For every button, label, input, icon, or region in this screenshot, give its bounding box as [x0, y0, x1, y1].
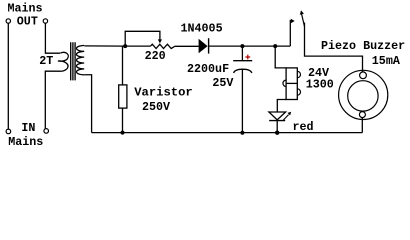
wire secondary bottom to rail: [84, 75, 91, 133]
wire LED to bottom rail: [276, 121, 278, 133]
svg-text:OUT: OUT: [17, 14, 38, 28]
piezo buzzer outer circle: [339, 70, 388, 119]
buzzer terminal bottom: [359, 112, 365, 118]
transformer core: [71, 42, 75, 80]
wire diode to switch riser: [209, 45, 291, 47]
resistor R 220: [150, 44, 174, 48]
svg-text:Mains: Mains: [8, 135, 43, 149]
switch left post arrowhead: [291, 19, 295, 24]
node junction relay branch: [273, 44, 277, 48]
relay coil K1 box: [286, 68, 297, 100]
diode D1 1N4005: [199, 39, 208, 54]
svg-text:IN: IN: [21, 121, 35, 135]
capacitor top plate: [233, 60, 252, 62]
relay coil bumps: [283, 71, 301, 95]
terminal OUT left: [6, 19, 10, 23]
piezo buzzer inner circle: [348, 81, 378, 111]
svg-text:220: 220: [145, 49, 166, 63]
wire coil to LED: [277, 100, 286, 113]
wire mains left vertical: [7, 23, 9, 128]
wire buzzer bottom to rail: [361, 118, 363, 133]
svg-text:1N4005: 1N4005: [181, 21, 223, 35]
svg-text:15mA: 15mA: [372, 54, 401, 68]
node junction top-left: [123, 44, 127, 48]
wire resistor to diode: [175, 45, 199, 47]
varistor RV1 wire top: [122, 46, 124, 85]
wire capacitor bottom: [241, 70, 243, 133]
node varistor bottom: [121, 131, 125, 135]
svg-text:25V: 25V: [212, 76, 233, 90]
capacitor bottom plate (curved): [234, 69, 252, 73]
buzzer terminal top: [360, 72, 367, 79]
svg-text:2T: 2T: [39, 54, 53, 68]
wire primary bottom return: [45, 71, 60, 128]
wire branch down to relay coil: [275, 46, 286, 68]
varistor box: [119, 85, 127, 108]
arrowhead onto resistor: [158, 39, 162, 43]
switch right post: [305, 23, 363, 73]
svg-text:1300: 1300: [306, 77, 334, 91]
switch blade: [301, 12, 305, 27]
LED D2 red: [269, 112, 286, 120]
wire bottom rail: [92, 132, 363, 134]
wire mains right vertical to transformer primary: [45, 23, 60, 53]
transformer secondary winding: [77, 45, 85, 74]
terminal OUT right: [43, 19, 47, 23]
wire bypass loop over resistor: [125, 31, 160, 46]
terminal IN right: [44, 129, 49, 134]
LED arrow: [283, 115, 288, 121]
svg-text:Piezo Buzzer: Piezo Buzzer: [321, 39, 405, 53]
svg-text:250V: 250V: [142, 100, 170, 114]
wire top rail left: [84, 45, 150, 47]
node junction capacitor top: [240, 44, 244, 48]
node capacitor bottom: [240, 131, 244, 135]
transformer primary winding: [58, 52, 68, 71]
svg-text:Varistor: Varistor: [134, 86, 193, 100]
capacitor plus sign: [245, 55, 250, 60]
capacitor C1 2200uF wire top: [241, 46, 243, 60]
node LED bottom: [275, 131, 279, 135]
terminal IN left: [6, 129, 11, 134]
varistor wire bottom: [122, 108, 124, 133]
relay switch S1 left post: [289, 20, 291, 46]
svg-text:2200uF: 2200uF: [187, 62, 229, 76]
